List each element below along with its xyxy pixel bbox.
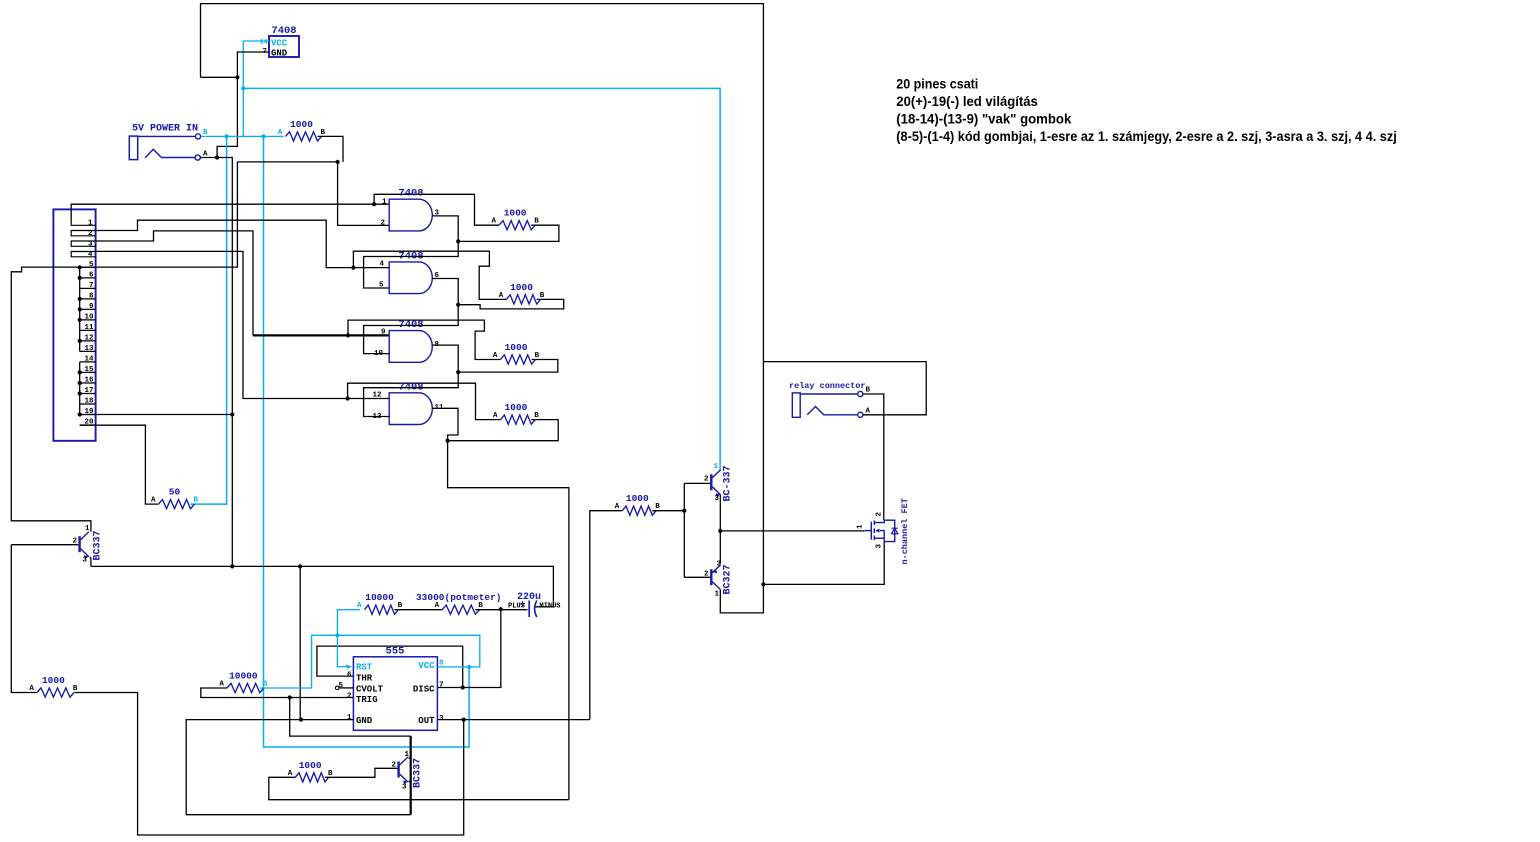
connector J1 5V power jack symbol: [129, 129, 208, 160]
svg-text:1: 1: [88, 219, 93, 227]
svg-text:12: 12: [372, 392, 382, 400]
svg-text:A: A: [288, 770, 293, 778]
wire R9 B to potmeter A: [395, 609, 443, 611]
svg-text:4: 4: [379, 261, 384, 269]
wire pin1 net to gate1 input 1: [71, 204, 389, 220]
svg-text:3: 3: [83, 557, 88, 565]
AND gate U1b 7408: [389, 250, 432, 293]
connector J2 pin 14: [80, 355, 96, 363]
svg-text:B: B: [328, 770, 333, 778]
svg-text:A: A: [357, 602, 362, 610]
svg-text:10000: 10000: [229, 671, 258, 682]
connector J2 pin 1: [71, 219, 95, 227]
svg-text:2: 2: [391, 762, 396, 770]
wire R10 B to VCC vertical: [260, 687, 264, 689]
svg-text:3: 3: [715, 495, 720, 503]
connector J2 pin 12: [80, 334, 96, 342]
wire pin4 net loop to R5 A: [348, 383, 501, 419]
connector J2 pin 6: [80, 271, 96, 279]
node key-common junction: [336, 160, 340, 164]
connector J2 pin 15: [80, 366, 96, 374]
resistor R1 1000: [278, 119, 326, 141]
svg-text:1000: 1000: [510, 282, 533, 293]
wire gate1 output to gate2 input 5: [364, 216, 459, 288]
node bus junction pin 5: [78, 265, 82, 269]
wire pin1 net loop to R2 A: [374, 194, 499, 225]
wire TRIG net: [201, 688, 354, 698]
connector J2 pin 16: [80, 377, 96, 385]
AND gate U1c 7408: [389, 319, 432, 362]
resistor R7 1000: [29, 675, 78, 697]
svg-text:10000: 10000: [365, 592, 394, 603]
node FET source ground junction: [761, 582, 765, 586]
wire VCC drop to 5V B terminal: [242, 88, 244, 136]
svg-text:3: 3: [876, 544, 884, 549]
svg-text:2: 2: [88, 230, 93, 238]
wire gate3 output to gate4 input 13: [364, 345, 459, 416]
svg-text:2: 2: [704, 571, 709, 579]
connector J2 pin 20: [80, 419, 96, 427]
wire R8 B to transistor bases: [652, 510, 684, 512]
svg-text:B: B: [263, 681, 268, 689]
svg-text:2: 2: [704, 476, 709, 484]
svg-text:B: B: [866, 387, 871, 395]
svg-text:B: B: [534, 218, 539, 226]
IC U1 7408 power box: [260, 25, 299, 59]
resistor R10 10000: [219, 671, 267, 693]
connector J2 pin 7: [80, 282, 96, 290]
node bus junction pin 6: [78, 276, 82, 280]
svg-text:5: 5: [89, 261, 94, 269]
svg-text:VCC: VCC: [271, 39, 288, 49]
svg-text:15: 15: [84, 366, 94, 374]
wire gate4 output: [432, 408, 569, 799]
potentiometer RV1 33000: [416, 592, 502, 614]
node gate4 output junction: [446, 439, 450, 443]
svg-text:1000: 1000: [42, 675, 65, 686]
node GND junction at 555: [299, 718, 303, 722]
wire pin4 net to gate4 input 12: [96, 251, 390, 398]
svg-text:1: 1: [85, 525, 90, 533]
wire Q1 base rail down to R7 A: [11, 545, 37, 693]
svg-text:1000: 1000: [504, 402, 527, 413]
node ground rail pin19 branch: [230, 564, 234, 568]
connector J2 20-pin body: [53, 209, 95, 440]
svg-text:50: 50: [169, 487, 181, 498]
transistor Q1 BC337: [80, 532, 89, 560]
resistor R9 10000: [357, 592, 403, 614]
wire VCC to R9 A and RST: [337, 610, 359, 667]
svg-text:relay connector: relay connector: [789, 381, 866, 391]
svg-text:9: 9: [381, 329, 386, 337]
wire GND pin7 of U1: [237, 52, 269, 77]
svg-text:20(+)-19(-) led világítás: 20(+)-19(-) led világítás: [896, 94, 1038, 109]
svg-text:8: 8: [89, 292, 94, 300]
wire pin5 net to Q1 collector: [11, 267, 91, 532]
node THR-DISC junction: [461, 685, 465, 689]
node bus junction pin 12: [78, 339, 82, 343]
svg-text:12: 12: [84, 334, 94, 342]
svg-text:n-channel FET: n-channel FET: [900, 498, 910, 564]
wire to FET gate: [720, 530, 864, 532]
wire THR loop: [317, 646, 463, 687]
svg-text:11: 11: [84, 324, 94, 332]
svg-text:1000: 1000: [290, 119, 313, 130]
node base rail junction: [682, 509, 686, 513]
resistor R6 50: [151, 487, 199, 509]
annotation text block: [896, 77, 1397, 145]
transistor Q2 BC-337: [711, 470, 720, 498]
svg-text:RST: RST: [356, 663, 373, 673]
node pin1 net junction: [372, 202, 376, 206]
wire gate3 output loop to R4 B: [458, 360, 558, 373]
node pin2 net junction: [351, 266, 355, 270]
connector J2 pin 10: [80, 313, 96, 321]
connector J2 pin 17: [80, 387, 96, 395]
svg-text:9: 9: [89, 303, 94, 311]
wire GND stub to pin7 junction: [201, 76, 238, 78]
svg-text:6: 6: [89, 271, 94, 279]
svg-text:(18-14)-(13-9) "vak" gombok: (18-14)-(13-9) "vak" gombok: [896, 112, 1071, 127]
svg-text:1000: 1000: [505, 342, 528, 353]
svg-text:B: B: [655, 503, 660, 511]
wire TRIG loop down: [290, 698, 411, 737]
capacitor C1 220u: [508, 592, 561, 617]
wire GND down to jack A junction: [217, 77, 237, 157]
svg-text:10: 10: [84, 313, 94, 321]
svg-text:7: 7: [89, 282, 94, 290]
svg-text:GND: GND: [356, 716, 373, 726]
connector J2 pin 9: [80, 303, 96, 311]
svg-text:A: A: [499, 292, 504, 300]
wire jack A to ground net: [200, 158, 232, 567]
AND gate U1d 7408: [389, 381, 432, 424]
resistor R4 1000: [493, 342, 540, 364]
svg-text:GND: GND: [271, 49, 288, 59]
wire Q5 collector: [409, 736, 411, 758]
wire VCC vertical to 50-ohm B: [191, 136, 227, 504]
svg-text:17: 17: [84, 387, 93, 395]
gate pin number labels: [372, 392, 444, 422]
svg-text:3: 3: [88, 240, 93, 248]
gate pin number labels: [379, 261, 440, 290]
wire GND top border from 7408 power pins to right side: [201, 4, 764, 585]
wire VCC pin14 of U1: [243, 41, 269, 88]
wire gate4 output loop to R5 B: [448, 420, 559, 441]
svg-text:BC327: BC327: [723, 564, 734, 594]
gate pin number labels: [374, 329, 440, 359]
wire pin3 net: [96, 231, 253, 336]
node pin4 net junction: [346, 396, 350, 400]
svg-text:A: A: [493, 412, 498, 420]
svg-text:B: B: [540, 292, 545, 300]
svg-text:A: A: [219, 681, 224, 689]
svg-text:B: B: [534, 412, 539, 420]
svg-text:B: B: [73, 685, 78, 693]
resistor R11 1000: [288, 760, 333, 782]
wire VCC main horizontal rail: [243, 88, 720, 470]
AND gate U1a 7408: [389, 188, 432, 231]
svg-text:B: B: [535, 352, 540, 360]
connector J2 pin 19: [80, 408, 96, 416]
wire Q2 emitter down: [719, 495, 721, 564]
svg-text:4: 4: [88, 251, 93, 259]
svg-text:1: 1: [382, 198, 387, 206]
node GND junction: [235, 75, 239, 79]
resistor R5 1000: [493, 402, 539, 424]
node OUT junction: [462, 718, 466, 722]
wire base rail: [683, 483, 685, 577]
node bus junction pin 15: [78, 370, 82, 374]
node RST arrow pin 4: [346, 664, 352, 668]
node bus junction pin 9: [78, 307, 82, 311]
IC U2 555 timer: [338, 646, 444, 731]
wire Q1 emitter to ground rail: [90, 557, 91, 566]
wire bottom loop vertical: [410, 736, 412, 815]
wire gate1 output loop to R2 B: [458, 225, 559, 241]
wire DISC branch: [437, 609, 500, 687]
wire connector bus pins 14-19: [79, 362, 81, 415]
transistor Q4 n-channel FET symbol: [865, 520, 898, 541]
node VCC tap to 10000 ohm: [261, 134, 265, 138]
wire relay A to ground vertical: [763, 362, 926, 415]
wire pin3 net loop to R4 A: [348, 320, 500, 359]
connector J2 pin 5: [80, 261, 96, 269]
svg-text:1: 1: [857, 524, 865, 529]
svg-text:33000(potmeter): 33000(potmeter): [416, 592, 502, 603]
svg-text:3: 3: [402, 784, 407, 792]
svg-text:2: 2: [380, 220, 385, 228]
svg-text:18: 18: [84, 398, 94, 406]
wire connector bus pins 5-13: [79, 267, 81, 351]
svg-text:5V POWER IN: 5V POWER IN: [132, 124, 198, 135]
transistor Q3 BC327: [711, 565, 720, 590]
wire pin19 to ground rail: [80, 414, 233, 416]
node jack A junction: [215, 155, 219, 159]
svg-text:A: A: [493, 352, 498, 360]
svg-text:6: 6: [347, 672, 352, 680]
wire ground branch to 555 GND: [299, 566, 301, 719]
svg-text:B: B: [194, 497, 199, 505]
connector J2 pin 8: [80, 292, 96, 300]
connector J3 relay jack symbol: [792, 387, 870, 418]
resistor R8 1000: [615, 493, 661, 515]
svg-text:A: A: [491, 218, 496, 226]
node VCC tap to 50 ohm: [225, 134, 229, 138]
node CVOLT open terminal: [335, 686, 353, 690]
svg-text:555: 555: [386, 646, 405, 658]
svg-text:VCC: VCC: [418, 661, 435, 671]
wire key-common down to connector pin5 row: [80, 162, 238, 267]
svg-text:BC337: BC337: [93, 530, 104, 560]
svg-text:14: 14: [260, 39, 268, 46]
wire base to Q3: [684, 576, 710, 578]
wire base to Q2: [684, 482, 710, 484]
svg-text:A: A: [435, 602, 440, 610]
wire relay B to FET drain: [863, 394, 884, 520]
wire gate2 output loop to R3 B: [458, 299, 564, 309]
wire R3 A loop to pin2 net: [353, 251, 506, 299]
node bus junction pin 8: [78, 297, 82, 301]
node TRIG junction: [288, 695, 292, 699]
svg-text:B: B: [398, 602, 403, 610]
node VCC junction at pin14 drop: [241, 86, 245, 90]
svg-text:1000: 1000: [504, 208, 527, 219]
node gate1 output junction: [456, 239, 460, 243]
svg-text:A: A: [151, 497, 156, 505]
svg-text:2: 2: [347, 693, 352, 701]
svg-text:20 pines csati: 20 pines csati: [896, 77, 978, 92]
svg-text:3: 3: [717, 561, 722, 569]
wire key-common rail: [237, 161, 337, 163]
node Q2 emitter / Q3 collector junction: [718, 529, 722, 533]
svg-text:1000: 1000: [626, 493, 649, 504]
node ground rail 555 branch: [298, 564, 302, 568]
svg-text:TRIG: TRIG: [356, 695, 378, 705]
svg-text:BC337: BC337: [413, 758, 424, 788]
wire key-common to gate1 pin2: [338, 162, 390, 226]
wire R11 A loop to emitter line: [269, 777, 569, 799]
wire pin3 net to gate3 input 9: [253, 334, 389, 336]
node VCC pin8 junction: [467, 665, 471, 669]
wire GND net of 555: [186, 720, 411, 815]
svg-text:DISC: DISC: [413, 685, 435, 695]
svg-text:1: 1: [714, 463, 719, 471]
svg-text:A: A: [29, 685, 34, 693]
wire OUT net: [437, 719, 589, 721]
wire VCC vertical to 555 area: [264, 136, 470, 747]
svg-text:7408: 7408: [271, 25, 296, 37]
wire FET source to ground node: [763, 542, 884, 585]
node DISC junction: [499, 607, 503, 611]
wire potmeter B to cap plus: [475, 609, 527, 611]
node bus junction pin 19: [78, 412, 82, 416]
svg-text:16: 16: [84, 377, 94, 385]
node bus junction pin 10: [78, 318, 82, 322]
svg-text:1: 1: [347, 714, 352, 722]
wire VCC cyan net around 555: [264, 635, 480, 688]
wire Q3 emitter loop to ground node: [720, 584, 763, 613]
svg-text:7408: 7408: [398, 188, 423, 200]
connector J2 pin 13: [80, 345, 96, 353]
connector J2 pin 2: [71, 230, 95, 238]
svg-text:2: 2: [876, 512, 884, 517]
wire OUT branch to bottom-left resistor: [75, 693, 464, 836]
node gate3 output junction: [456, 370, 460, 374]
resistor R2 1000: [491, 208, 539, 230]
node VCC junction at 555: [335, 633, 339, 637]
wire VCC from jack B to resistor R1: [201, 135, 284, 137]
connector J2 pin 4: [71, 251, 95, 259]
svg-text:B: B: [478, 602, 483, 610]
wire gate2 output to gate3 input 10: [364, 279, 459, 354]
resistor R3 1000: [499, 282, 545, 304]
svg-text:1: 1: [715, 591, 720, 599]
svg-text:1000: 1000: [299, 760, 322, 771]
connector J2 pin 3: [71, 240, 95, 248]
svg-text:CVOLT: CVOLT: [356, 685, 384, 695]
svg-text:B: B: [321, 129, 326, 137]
wire pin2 net to gate2 input 4: [96, 220, 390, 267]
node pin19 ground junction: [230, 412, 234, 416]
svg-text:A: A: [278, 129, 283, 137]
connector J2 pin 18: [80, 398, 96, 406]
svg-text:A: A: [615, 503, 620, 511]
node pin3 net junction: [346, 333, 350, 337]
svg-text:13: 13: [84, 345, 94, 353]
connector J2 pin 11: [80, 324, 96, 332]
wire ground rail emitter line: [91, 566, 554, 606]
wire Q5 emitter: [409, 781, 411, 800]
wire Q1 base: [11, 544, 78, 546]
svg-text:7: 7: [439, 682, 444, 690]
svg-text:14: 14: [84, 355, 94, 363]
wire R11 B to Q5 base: [325, 768, 398, 777]
wire pin20 to 50-ohm A: [80, 425, 159, 504]
svg-text:MINUS: MINUS: [540, 603, 561, 611]
node bus junction pin 16: [78, 381, 82, 385]
wire R1 B to key-common rail: [318, 136, 344, 162]
svg-text:THR: THR: [356, 674, 373, 684]
node gate2 output junction: [456, 303, 460, 307]
svg-text:OUT: OUT: [418, 716, 435, 726]
gate pin number labels: [380, 198, 439, 227]
wire R8 A to 555 OUT net: [590, 511, 623, 720]
svg-text:BC-337: BC-337: [723, 465, 734, 501]
node bus junction pin 17: [78, 391, 82, 395]
transistor Q5 BC337: [399, 757, 408, 785]
svg-text:(8-5)-(1-4) kód gombjai, 1-esr: (8-5)-(1-4) kód gombjai, 1-esre az 1. sz…: [896, 129, 1397, 144]
